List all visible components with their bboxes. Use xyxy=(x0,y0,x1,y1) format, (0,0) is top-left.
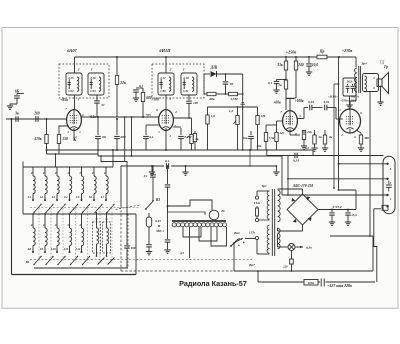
switch contact B2-2 xyxy=(46,257,53,265)
pickup jack ZVG xyxy=(148,210,150,217)
svg-text:L7: L7 xyxy=(100,195,105,199)
wire y154 xyxy=(47,153,99,155)
ground speaker xyxy=(380,86,382,103)
winding L15/C22 xyxy=(66,73,82,95)
svg-text:C22: C22 xyxy=(68,89,74,93)
IF transformer T1 shield (dashed) xyxy=(59,64,109,98)
svg-text:2′: 2′ xyxy=(66,171,70,175)
capacitor heater xyxy=(291,251,293,260)
ground stubs xyxy=(151,166,153,172)
svg-text:2′: 2′ xyxy=(54,171,58,175)
tube V1 (6A07) xyxy=(67,110,82,131)
wire V2 cathode down xyxy=(165,131,167,150)
row2 bus xyxy=(34,267,128,269)
svg-text:2×15,0: 2×15,0 xyxy=(332,205,342,209)
gang section 2 xyxy=(199,227,217,241)
gang ground cap xyxy=(167,206,169,239)
coil L6 xyxy=(93,167,95,176)
resistor R1 470k xyxy=(46,119,48,134)
svg-text:470к: 470к xyxy=(33,137,41,141)
wire drop to rail xyxy=(55,154,57,167)
svg-text:C23: C23 xyxy=(90,89,96,93)
osc coupling verticals xyxy=(124,116,126,118)
svg-text:2′: 2′ xyxy=(91,171,95,175)
coil L4 xyxy=(69,167,71,176)
fuse block xyxy=(304,280,318,286)
svg-text:6И1П: 6И1П xyxy=(159,48,171,53)
filter cap box 50.0 xyxy=(343,78,356,96)
potentiometer R14 volume xyxy=(237,107,239,115)
svg-text:15,0: 15,0 xyxy=(351,213,357,217)
wire V4 anode xyxy=(355,92,357,101)
wire down to AF xyxy=(242,74,244,150)
svg-text:50,0: 50,0 xyxy=(347,80,353,84)
capacitor C8 xyxy=(116,119,118,135)
svg-text:L3: L3 xyxy=(51,195,56,199)
V3 top cap xyxy=(289,99,291,110)
electrolytic C45 xyxy=(331,210,333,213)
svg-text:АБС-178-218: АБС-178-218 xyxy=(292,184,313,188)
svg-text:L17: L17 xyxy=(159,76,166,80)
svg-text:150: 150 xyxy=(62,137,68,141)
svg-text:Вк1: Вк1 xyxy=(233,231,240,235)
svg-text:2′: 2′ xyxy=(77,68,81,72)
resistor R12 1.5M xyxy=(229,92,238,95)
resistor R21 xyxy=(284,80,287,89)
svg-text:10,0: 10,0 xyxy=(312,63,318,67)
switch contact B2-4 xyxy=(71,257,78,265)
osc coil boxes xyxy=(93,222,101,253)
capacitor C25 xyxy=(133,89,139,91)
resistor R18 xyxy=(276,125,278,132)
tuning indicator tube 6E5S xyxy=(383,156,395,214)
wire T2 to diode xyxy=(204,73,210,75)
osc switch contacts xyxy=(98,258,105,265)
switch contact B1-7 xyxy=(107,205,114,213)
svg-text:Пр: Пр xyxy=(319,50,325,54)
svg-text:0,03: 0,03 xyxy=(308,100,314,104)
coupling caps to V4 xyxy=(297,118,304,120)
resistor R2 150 xyxy=(59,126,69,134)
svg-text:51: 51 xyxy=(101,103,105,107)
svg-text:680: 680 xyxy=(146,96,152,100)
switch contact B2-3 xyxy=(58,257,65,265)
wire V1 cathode down xyxy=(73,131,75,141)
svg-text:L4: L4 xyxy=(63,195,68,199)
IF transformer T2 shield (dashed) xyxy=(152,64,204,98)
gang section 1 xyxy=(183,227,201,237)
resistor R19 33k xyxy=(285,57,287,61)
resistor R11 68k xyxy=(207,92,216,95)
eye bottom return xyxy=(374,208,381,210)
switch Vk1 xyxy=(245,238,256,240)
svg-text:20н: 20н xyxy=(242,136,248,140)
svg-text:6,3в: 6,3в xyxy=(306,246,312,250)
wire secondary to speaker xyxy=(372,76,379,78)
svg-text:L15: L15 xyxy=(67,76,74,80)
svg-text:L6: L6 xyxy=(88,195,93,199)
svg-text:+60в: +60в xyxy=(273,101,281,105)
svg-text:200: 200 xyxy=(33,112,40,116)
svg-text:0,5А: 0,5А xyxy=(308,281,315,285)
svg-text:122в: 122в xyxy=(254,201,261,205)
svg-text:L16: L16 xyxy=(89,76,96,80)
gang link dashed xyxy=(87,208,89,263)
capacitor C7 xyxy=(97,117,99,135)
switch B4 xyxy=(230,245,232,247)
svg-text:30к: 30к xyxy=(256,144,262,148)
tap resistor xyxy=(256,208,259,216)
svg-text:1,0: 1,0 xyxy=(211,114,216,118)
eye bottom box xyxy=(382,205,388,210)
capacitor B3 feed xyxy=(152,166,154,174)
resistor R22 xyxy=(303,130,305,131)
svg-text:127в: 127в xyxy=(249,231,256,235)
capacitor C33 xyxy=(225,74,227,81)
primary taps xyxy=(257,190,270,192)
svg-text:+255в 0,28А: +255в 0,28А xyxy=(340,99,356,103)
unit box bottom xyxy=(12,274,137,276)
svg-text:0,1: 0,1 xyxy=(139,84,144,88)
wire V3 grid left xyxy=(277,120,283,122)
coil L5 xyxy=(81,167,83,176)
svg-text:2′: 2′ xyxy=(169,68,173,72)
ground filter xyxy=(349,96,351,105)
svg-text:0,1: 0,1 xyxy=(165,159,170,163)
svg-text:L8: L8 xyxy=(27,247,32,251)
svg-text:2С: 2С xyxy=(220,209,226,213)
tube V4 (6P1P) xyxy=(340,109,361,133)
resistor R23 xyxy=(313,135,316,144)
svg-text:Гр: Гр xyxy=(383,65,388,69)
resistor R5 xyxy=(191,118,193,134)
resistor R17 xyxy=(265,125,267,132)
svg-text:Тр1: Тр1 xyxy=(261,184,267,188)
coil L3 xyxy=(56,167,58,176)
svg-text:24к: 24к xyxy=(306,130,312,134)
pilot lamp L5 xyxy=(278,246,289,248)
svg-text:+100в: +100в xyxy=(294,99,303,103)
svg-text:65: 65 xyxy=(230,82,234,86)
resistor R20 xyxy=(295,57,297,61)
wire to band switch xyxy=(11,119,13,275)
mains wires upper xyxy=(234,270,373,272)
left rail vertical xyxy=(22,162,24,215)
coil L1 xyxy=(32,167,34,176)
electrolytic C46 xyxy=(347,210,349,213)
gang link dashed xyxy=(50,208,52,263)
coil rail row1 xyxy=(23,166,113,168)
wire T1 secondary down xyxy=(96,95,98,101)
svg-text:+85в: +85в xyxy=(60,98,68,102)
capacitor C16 xyxy=(250,131,252,135)
resistor R24 xyxy=(323,135,326,144)
gang link dashed xyxy=(38,208,40,263)
svg-text:2н: 2н xyxy=(328,135,333,139)
svg-text:L11: L11 xyxy=(63,247,69,251)
variable capacitor comb xyxy=(172,223,176,227)
resistor R9 22k xyxy=(116,57,118,75)
winding L16/C23 xyxy=(88,73,104,95)
osc grid wire xyxy=(100,156,102,162)
B+ vertical wire xyxy=(338,57,340,190)
switch contact B1-6 xyxy=(95,205,102,213)
switch contact B1-2 xyxy=(46,205,53,213)
capacitor C13 xyxy=(180,128,182,135)
rectifier bridge ABC xyxy=(287,194,318,225)
svg-text:L18: L18 xyxy=(182,76,189,80)
svg-text:+270в: +270в xyxy=(342,48,353,53)
AVC to gang vertical xyxy=(167,165,169,167)
capacitor C20 0.1 xyxy=(165,163,167,169)
dial drum xyxy=(209,210,219,220)
svg-text:Радиола Казань-57: Радиола Казань-57 xyxy=(179,279,247,288)
wire V2 anode to T2 xyxy=(165,57,167,73)
dial cord stepped wire xyxy=(167,205,169,207)
gang section 3 xyxy=(211,227,227,246)
tube V3 (6G2) xyxy=(283,111,298,132)
svg-text:+100: +100 xyxy=(151,98,159,102)
svg-text:+250в: +250в xyxy=(286,50,297,55)
switch contact B2-1 xyxy=(34,257,41,265)
mains wires lower xyxy=(258,281,304,283)
gang link dashed xyxy=(75,208,77,263)
svg-text:~127 отв 220в: ~127 отв 220в xyxy=(327,283,352,288)
svg-text:3н: 3н xyxy=(14,112,19,116)
winding L17/C30 xyxy=(158,73,174,95)
wire B+ top bus xyxy=(75,56,318,58)
svg-text:0,1: 0,1 xyxy=(149,135,154,139)
svg-text:22к: 22к xyxy=(119,81,126,85)
wire eye vertical tie xyxy=(287,156,289,196)
dashed unit border xyxy=(127,214,129,268)
winding L18/C31 xyxy=(181,73,197,95)
svg-text:C31: C31 xyxy=(183,89,189,93)
switch contact B1-4 xyxy=(71,205,78,213)
capacitor C100 xyxy=(126,214,128,245)
mech link row1 dashed xyxy=(30,207,141,209)
svg-text:1′: 1′ xyxy=(183,68,186,72)
heater line xyxy=(330,235,373,237)
chassis bar xyxy=(172,220,226,222)
svg-text:L1: L1 xyxy=(27,195,32,199)
resistor R25 380 xyxy=(360,133,362,135)
wire secondary bottom down xyxy=(369,92,371,237)
svg-text:0,33: 0,33 xyxy=(293,159,299,163)
svg-text:2′: 2′ xyxy=(30,171,34,175)
switch B3 xyxy=(116,205,141,210)
svg-text:Тр4: Тр4 xyxy=(361,62,367,66)
wire V1 out right xyxy=(81,116,159,118)
wire detector load xyxy=(204,93,207,95)
svg-text:2′: 2′ xyxy=(103,171,107,175)
svg-text:100: 100 xyxy=(131,246,136,250)
rail to bus xyxy=(112,150,114,167)
switch contact B1-5 xyxy=(83,205,90,213)
svg-text:6Б: 6Б xyxy=(15,90,20,94)
svg-text:В1: В1 xyxy=(25,260,30,264)
svg-text:М: М xyxy=(157,224,161,228)
plug prongs xyxy=(320,279,322,287)
output transformer Tr4 xyxy=(352,56,356,58)
capacitor C40 xyxy=(294,153,296,159)
capacitor C37 0.03 xyxy=(309,105,311,111)
gang link dashed xyxy=(111,208,113,263)
svg-text:L9: L9 xyxy=(39,247,44,251)
svg-text:2′: 2′ xyxy=(42,171,46,175)
tube V2 (6I1P) xyxy=(159,110,174,131)
svg-text:240: 240 xyxy=(297,63,304,67)
svg-text:+85: +85 xyxy=(145,113,151,117)
svg-text:6А07: 6А07 xyxy=(67,48,77,53)
bus y156 xyxy=(98,155,282,157)
gang link dashed xyxy=(62,208,64,263)
wire V1 anode to T1 xyxy=(74,57,76,73)
capacitor C2 xyxy=(15,116,17,122)
svg-text:120: 120 xyxy=(193,101,198,105)
capacitor C14 winding feed xyxy=(188,95,190,100)
bridge DC out xyxy=(318,209,356,211)
wire y155.5 xyxy=(267,155,384,157)
fuse Pr in B+ line xyxy=(317,55,327,59)
svg-text:Д2В: Д2В xyxy=(210,66,218,70)
choke feed up xyxy=(355,190,357,210)
svg-text:150: 150 xyxy=(187,135,192,139)
svg-text:«П1А»: «П1А» xyxy=(328,95,338,99)
mechanical link dashed xyxy=(121,270,258,272)
svg-text:L5: L5 xyxy=(75,195,80,199)
svg-text:L2: L2 xyxy=(39,195,44,199)
svg-text:C30: C30 xyxy=(160,89,166,93)
svg-text:7,5к: 7,5к xyxy=(269,136,275,140)
coil L2 xyxy=(44,167,46,176)
resistor R10 xyxy=(142,88,144,92)
svg-text:0,01: 0,01 xyxy=(324,100,330,104)
svg-text:0,25: 0,25 xyxy=(155,219,161,223)
resistor R13 1.0 xyxy=(207,107,209,115)
wire grid line V1 xyxy=(6,118,67,120)
main bus y150 xyxy=(47,149,314,151)
capacitor C3 xyxy=(35,116,37,122)
resistor R16 xyxy=(194,131,196,133)
svg-text:0,1: 0,1 xyxy=(268,81,273,85)
svg-text:2н: 2н xyxy=(317,135,322,139)
svg-text:68к: 68к xyxy=(209,97,214,101)
svg-text:В3: В3 xyxy=(155,198,160,202)
svg-text:ГД: ГД xyxy=(379,61,385,65)
eye internal cap xyxy=(388,181,390,185)
switch contact B1-1 xyxy=(34,205,41,213)
svg-text:ЗВГ-1: ЗВГ-1 xyxy=(155,229,164,233)
svg-text:4,5: 4,5 xyxy=(179,251,184,255)
capacitor C35 xyxy=(277,79,287,81)
svg-text:33к: 33к xyxy=(276,63,283,67)
capacitor C34 10.0 xyxy=(308,57,310,63)
svg-text:1′: 1′ xyxy=(91,68,94,72)
wires to eye pins xyxy=(339,163,388,165)
diode D2V xyxy=(211,71,217,77)
gang link dashed xyxy=(99,208,101,263)
svg-text:1,2: 1,2 xyxy=(229,109,234,113)
ground antenna xyxy=(7,105,13,107)
bridge AC bottom xyxy=(302,225,304,231)
screen feed vertical xyxy=(334,83,339,85)
svg-text:Вк7: Вк7 xyxy=(248,263,255,267)
switch contact B2-5 xyxy=(83,257,90,265)
mech link row2 dashed xyxy=(30,259,252,261)
speaker Gr xyxy=(377,79,382,87)
svg-text:2′: 2′ xyxy=(78,171,82,175)
capacitor C12 xyxy=(145,131,147,135)
gang stator wire down xyxy=(189,227,191,258)
svg-text:68: 68 xyxy=(102,135,106,139)
secondary winding box xyxy=(363,74,379,92)
wire V2 right pin xyxy=(173,117,191,119)
wire diode out xyxy=(217,73,243,75)
AVC line xyxy=(121,165,164,167)
svg-text:220: 220 xyxy=(282,265,288,269)
svg-text:0,5: 0,5 xyxy=(305,146,309,150)
switch contact B1-3 xyxy=(58,205,65,213)
row1 bus xyxy=(23,213,136,215)
svg-text:0,1: 0,1 xyxy=(144,174,148,178)
capacitor C24 xyxy=(94,100,100,102)
capacitor C38 xyxy=(324,105,326,111)
coil L7 xyxy=(105,167,107,176)
svg-text:1,5М: 1,5М xyxy=(230,97,238,101)
bridge AC top xyxy=(302,189,304,194)
svg-text:380: 380 xyxy=(363,136,369,140)
pot wiper arrow xyxy=(241,103,245,105)
resistor R15 1M xyxy=(257,107,259,115)
